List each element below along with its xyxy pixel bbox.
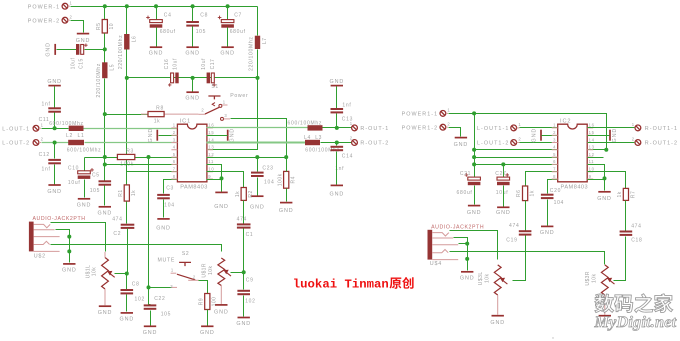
wire C7 to ground <box>227 28 229 47</box>
wire VCC to L6 <box>126 7 128 35</box>
svg-text:9: 9 <box>589 174 592 179</box>
svg-text:105: 105 <box>161 312 171 318</box>
svg-text:1k: 1k <box>131 190 137 196</box>
svg-text:GND: GND <box>467 210 482 216</box>
wire jack2 row2 down <box>454 238 468 266</box>
resistor R9 100 <box>198 294 217 310</box>
svg-text:102: 102 <box>245 299 255 305</box>
svg-text:luokai Tinman: luokai Tinman <box>293 278 389 292</box>
svg-text:C13: C13 <box>342 117 353 123</box>
potentiometer U$3R 10k <box>585 265 614 295</box>
svg-text:1: 1 <box>41 122 44 127</box>
input pin L-OUT1-2 <box>477 137 521 147</box>
wire pin6 line <box>475 164 558 166</box>
capacitor C21 680uf <box>457 171 481 196</box>
ground left of C15 <box>46 42 56 57</box>
svg-text:S1: S1 <box>211 84 219 90</box>
wire VCC right down to L7 <box>257 7 259 36</box>
wire pin11 to pin9 node <box>207 165 222 179</box>
wire pin14 to R-OUT1-2 <box>588 142 635 144</box>
svg-text:C22: C22 <box>154 296 165 302</box>
ground below jack2 <box>460 272 475 282</box>
node jack2 gnd 1 <box>465 242 469 246</box>
capacitor C16 10uf <box>171 73 179 84</box>
resistor R6 1k <box>516 186 535 201</box>
node C14/R-OUT-2 <box>335 141 339 145</box>
wire mid rail <box>127 77 258 79</box>
svg-text:C8: C8 <box>200 13 208 19</box>
svg-text:10k: 10k <box>92 267 98 276</box>
capacitor C18 474 <box>620 231 633 236</box>
svg-text:PAM8403: PAM8403 <box>180 184 208 190</box>
ground below C8 <box>185 47 200 56</box>
capacitor C1 474 <box>237 223 251 228</box>
svg-text:12: 12 <box>589 152 595 157</box>
svg-text:11: 11 <box>589 159 595 164</box>
svg-text:1: 1 <box>632 122 635 127</box>
svg-text:GND: GND <box>62 268 77 274</box>
inductor L1 labels <box>49 121 84 139</box>
svg-text:C10: C10 <box>68 165 79 171</box>
wire C11 to L-OUT-1 node <box>54 113 56 129</box>
svg-text:8: 8 <box>553 174 556 179</box>
svg-text:C27: C27 <box>495 171 506 177</box>
wire mid rail to ground <box>192 78 194 92</box>
wire pin15 to ground <box>207 135 228 137</box>
output pin R-OUT-1 <box>350 121 390 132</box>
svg-text:220/100Mhz: 220/100Mhz <box>249 36 255 71</box>
svg-text:GND: GND <box>143 330 158 336</box>
node VCC1 at pin13 <box>604 148 608 152</box>
svg-text:R9: R9 <box>198 298 204 305</box>
svg-text:U$1L: U$1L <box>85 265 91 279</box>
ground below C9 <box>236 318 251 328</box>
ground below U$3L <box>490 316 505 326</box>
capacitor C20 104 <box>541 188 564 206</box>
svg-text:10k: 10k <box>208 266 214 275</box>
svg-text:5: 5 <box>553 152 556 157</box>
ground below C5 <box>98 207 113 217</box>
wire wiper R to node <box>231 272 244 274</box>
node R3 right <box>147 155 151 159</box>
node mid rail right <box>256 76 260 80</box>
svg-text:2: 2 <box>632 137 635 142</box>
ground at IC2 pin15 <box>610 128 618 143</box>
svg-text:GND: GND <box>279 208 294 214</box>
svg-text:C1: C1 <box>246 232 254 238</box>
node C13/R-OUT-1 <box>335 126 339 130</box>
node wiper L / C8 <box>125 272 129 276</box>
wire ground to C13 <box>336 87 338 109</box>
stray mark <box>552 337 553 338</box>
potentiometer U$1R 10k <box>202 258 231 286</box>
svg-text:2: 2 <box>350 136 353 141</box>
svg-text:GND: GND <box>149 51 164 57</box>
svg-text:Power: Power <box>230 93 248 99</box>
pot U$1L top lead <box>104 252 106 258</box>
ground below C22 <box>143 326 158 336</box>
ground below C12 <box>47 185 62 195</box>
ground above C13 <box>330 79 345 85</box>
node VCC junction at L6 <box>125 4 129 8</box>
node R4 top <box>284 155 288 159</box>
wire jack row2 down <box>56 230 70 259</box>
svg-text:10uf: 10uf <box>173 58 179 70</box>
watermark logo <box>595 294 673 313</box>
svg-text:C18: C18 <box>631 238 642 244</box>
svg-text:680uf: 680uf <box>230 29 246 35</box>
svg-text:C12: C12 <box>39 152 50 158</box>
wire VCC to C8 <box>192 7 194 22</box>
svg-text:105: 105 <box>196 29 206 35</box>
ground at IC1 pin2 <box>148 128 158 143</box>
svg-text:680uf: 680uf <box>457 190 473 196</box>
svg-text:5: 5 <box>173 152 176 157</box>
svg-text:1k: 1k <box>235 191 241 197</box>
wire C5 stem <box>104 165 106 181</box>
svg-text:474: 474 <box>237 217 247 223</box>
ground at IC2 pin2 <box>532 128 542 143</box>
ground below C8 <box>120 313 135 323</box>
node IC2 pin9 ground <box>603 176 607 180</box>
node R5/C15/L5 <box>103 47 107 51</box>
svg-text:GND: GND <box>454 142 469 148</box>
wire pin11 to pin9 node <box>588 165 605 179</box>
wire S1 pin3 to SD net <box>231 119 287 158</box>
wire L1 to IC1 pin1 <box>84 128 178 130</box>
wire L6 down the page <box>126 50 128 185</box>
capacitor C2 474 <box>121 224 135 229</box>
svg-text:GND: GND <box>46 42 52 57</box>
svg-text:C5: C5 <box>92 172 100 178</box>
capacitor C19 474 <box>519 230 532 235</box>
node VCC junction at C8 <box>191 4 195 8</box>
svg-text:474: 474 <box>631 223 641 229</box>
svg-text:220/100Mhz: 220/100Mhz <box>96 63 102 98</box>
inductor L4 labels <box>304 135 340 153</box>
svg-text:C21: C21 <box>460 171 471 177</box>
wire C21 to ground <box>474 186 476 205</box>
svg-text:10: 10 <box>109 23 115 30</box>
svg-text:U$4: U$4 <box>430 261 442 267</box>
wire VCC to R5 <box>104 7 106 20</box>
svg-text:10: 10 <box>208 167 214 172</box>
wire R4 lead top <box>286 158 288 172</box>
svg-text:1: 1 <box>70 0 73 5</box>
svg-text:10uf: 10uf <box>68 180 81 186</box>
capacitor C19 labels <box>506 223 519 244</box>
wire C8 to ground <box>126 295 128 312</box>
capacitor C14 1nf <box>331 146 354 172</box>
svg-text:680uf: 680uf <box>160 29 176 35</box>
node C12/L-OUT-2 <box>53 141 57 145</box>
svg-text:2: 2 <box>201 108 204 113</box>
svg-text:POWER-1: POWER-1 <box>28 4 61 10</box>
svg-text:1nf: 1nf <box>42 167 51 173</box>
svg-text:MyDigit.net: MyDigit.net <box>594 313 677 331</box>
inductor L4 600/100Mhz <box>305 140 320 145</box>
wire VCC to C7 <box>227 7 229 20</box>
resistor R1 1k <box>118 185 137 201</box>
wire C23 stem <box>257 158 259 172</box>
ground below C4 <box>149 47 164 56</box>
input pin L-OUT1-1 <box>477 122 521 132</box>
node wiper R / C9 <box>242 270 246 274</box>
svg-text:U$3R: U$3R <box>585 271 591 286</box>
svg-text:6: 6 <box>173 159 176 164</box>
resistor R7 1k <box>617 188 636 200</box>
svg-text:220/100Mhz: 220/100Mhz <box>118 35 124 70</box>
wire pin5 line <box>85 157 178 159</box>
svg-text:10uf: 10uf <box>71 58 77 70</box>
svg-text:L6: L6 <box>131 36 137 43</box>
svg-text:C16: C16 <box>164 59 170 70</box>
svg-text:C23: C23 <box>262 165 273 171</box>
inductor L3 600/100Mhz <box>308 125 323 130</box>
wire ground to C11 <box>54 87 56 108</box>
svg-text:3: 3 <box>553 137 556 142</box>
svg-text:GND: GND <box>77 202 92 208</box>
svg-text:GND: GND <box>496 210 511 216</box>
svg-text:3: 3 <box>224 113 227 118</box>
op-amp IC1 PAM8403 <box>171 119 214 191</box>
svg-text:PAM8403: PAM8403 <box>561 184 589 190</box>
wire pin16 to L3 <box>207 127 308 129</box>
ground below C20 <box>540 226 555 236</box>
wire C14 to ground <box>336 152 338 185</box>
wire jack2 ring to pot R <box>450 252 605 265</box>
svg-text:L-OUT-1: L-OUT-1 <box>2 127 30 133</box>
wire R3 node down to mute <box>148 158 150 288</box>
wire R5 to C15 node <box>104 34 106 63</box>
svg-text:GND: GND <box>148 128 154 143</box>
wire C12 to ground <box>54 165 56 185</box>
ground above C11 <box>47 79 62 85</box>
svg-text:1nf: 1nf <box>342 102 351 108</box>
svg-text:R-OUT-2: R-OUT-2 <box>360 141 389 147</box>
svg-text:4: 4 <box>553 145 556 150</box>
capacitor C4 680uf <box>146 13 176 35</box>
svg-text:GND: GND <box>612 128 618 143</box>
ground below R4 <box>279 203 294 214</box>
svg-text:GND: GND <box>532 128 538 143</box>
svg-text:1: 1 <box>518 122 521 127</box>
capacitor C8b 102 <box>121 281 145 302</box>
wire pin5 line <box>475 157 558 159</box>
node jack ground 2 <box>67 249 71 253</box>
svg-text:C8: C8 <box>132 281 140 287</box>
svg-text:U$2: U$2 <box>34 253 46 259</box>
svg-text:2: 2 <box>553 130 556 135</box>
capacitor C17 labels <box>201 58 216 87</box>
capacitor C9 102 <box>237 278 255 305</box>
capacitor C13 1nf <box>331 102 354 122</box>
svg-text:C2: C2 <box>113 231 121 237</box>
wire C15 to node <box>85 49 105 51</box>
svg-text:GND: GND <box>98 310 113 316</box>
ground below jack <box>62 264 77 274</box>
svg-text:6: 6 <box>553 159 556 164</box>
wire pin10 to R2 <box>207 172 244 188</box>
output pin R-OUT-2 <box>350 136 390 147</box>
inductor L5 220/100Mhz <box>96 62 116 97</box>
node L6 / mid rail <box>125 76 129 80</box>
wire VCC1 riser down <box>474 114 476 178</box>
wire pin9 node to ground <box>604 179 606 191</box>
svg-text:2: 2 <box>518 137 521 142</box>
ground below U$1R <box>214 305 229 316</box>
wire VCC top rail <box>71 6 258 8</box>
node mute line <box>147 285 151 289</box>
svg-text:9: 9 <box>208 174 211 179</box>
ground below U$3R <box>598 316 613 326</box>
svg-text:R2: R2 <box>248 190 254 197</box>
svg-text:L5: L5 <box>109 64 115 71</box>
output pin L-OUT-1 <box>2 122 43 132</box>
svg-text:1k: 1k <box>530 190 536 196</box>
output pin L-OUT-2 <box>2 137 43 147</box>
wire C2 to wiper node <box>127 229 129 274</box>
node C27 tap <box>501 162 505 166</box>
inductor L2 600/100Mhz <box>68 140 84 145</box>
wire jack tip to pot L <box>51 223 106 252</box>
switch S1 Power <box>198 84 248 121</box>
resistor R2 1k <box>235 188 254 201</box>
ground at IC1 pin15 <box>228 128 236 143</box>
inductor L7 220/100Mhz <box>249 36 269 71</box>
svg-text:16: 16 <box>589 123 595 128</box>
svg-text:U$3L: U$3L <box>478 271 484 285</box>
capacitor C17 10uf <box>207 73 215 84</box>
ground below C7 <box>220 47 235 56</box>
svg-text:GND: GND <box>490 320 505 326</box>
svg-text:100k: 100k <box>277 173 283 186</box>
capacitor C18 labels <box>631 223 642 243</box>
wire pin8 to C3 <box>164 180 178 194</box>
wire C10 to ground <box>84 180 86 198</box>
svg-text:1: 1 <box>223 99 226 104</box>
pot U$1L bottom lead <box>104 289 106 305</box>
wire POWER-2 to ground <box>71 21 84 33</box>
ground below C21 <box>467 206 482 217</box>
node SD divider top <box>103 112 107 116</box>
resistor R5 <box>96 20 115 34</box>
svg-text:GND: GND <box>597 196 612 202</box>
capacitor C1 labels <box>237 217 254 238</box>
svg-text:104: 104 <box>164 202 174 208</box>
svg-text:R6: R6 <box>516 190 522 197</box>
svg-text:10: 10 <box>589 167 595 172</box>
capacitor C7 680uf <box>218 13 246 35</box>
node VCC junction at C7 <box>226 4 230 8</box>
wire L4 to R-OUT-2 <box>321 142 352 144</box>
svg-text:GND: GND <box>214 310 229 316</box>
svg-text:GND: GND <box>47 79 62 85</box>
wire L7 down to pin13 <box>207 50 258 150</box>
svg-text:3: 3 <box>173 137 176 142</box>
svg-text:GND: GND <box>460 276 475 282</box>
wire C13 to node <box>336 114 338 128</box>
svg-text:C4: C4 <box>164 13 172 19</box>
wire L-OUT1-1 to pin1 <box>520 127 558 129</box>
svg-text:GND: GND <box>47 189 62 195</box>
output pin R-OUT1-1 <box>632 122 678 132</box>
wire C1 to wiper node <box>243 229 245 273</box>
wire pin12 SD line <box>207 157 287 159</box>
svg-text:600/100Mhz: 600/100Mhz <box>288 121 323 127</box>
supply pin POWER1-1 <box>402 108 451 118</box>
ground below U$1L <box>98 306 113 316</box>
wire jack2 row3 <box>459 243 468 245</box>
wire C4 to ground <box>156 28 158 47</box>
potentiometer U$1L 10k <box>85 258 114 290</box>
wire C8 stem <box>126 274 128 290</box>
wire pin10 to R7 <box>588 172 626 189</box>
wire jack ring to pot R <box>51 245 222 252</box>
svg-text:GND: GND <box>200 330 215 336</box>
svg-text:MUTE: MUTE <box>158 257 176 263</box>
svg-text:10uf: 10uf <box>496 190 509 196</box>
wire pin4 line <box>475 149 558 151</box>
svg-text:GND: GND <box>214 204 229 210</box>
capacitor C15 10uf <box>76 44 84 55</box>
svg-text:R3: R3 <box>126 148 134 154</box>
svg-text:14: 14 <box>589 137 595 142</box>
svg-text:600/100Mhz: 600/100Mhz <box>67 148 102 154</box>
svg-text:L-OUT1-2: L-OUT1-2 <box>477 141 509 147</box>
svg-text:GND: GND <box>185 95 200 101</box>
svg-text:7: 7 <box>173 167 176 172</box>
wire pin14 to L4 <box>207 142 306 144</box>
wire pin12 stub <box>588 157 604 159</box>
svg-text:GND: GND <box>330 191 345 197</box>
ground below IC2 pin9 <box>597 192 612 202</box>
svg-text:474: 474 <box>112 216 122 222</box>
op-amp IC2 PAM8403 <box>552 119 595 191</box>
svg-text:L2: L2 <box>66 133 73 139</box>
svg-text:AUDIO-JACK2PTH: AUDIO-JACK2PTH <box>431 224 484 230</box>
svg-text:7: 7 <box>553 167 556 172</box>
wire C10 riser <box>84 158 86 171</box>
svg-text:GND: GND <box>120 317 135 323</box>
svg-text:10k: 10k <box>591 274 597 283</box>
svg-text:R-OUT1-2: R-OUT1-2 <box>645 141 678 147</box>
svg-text:C14: C14 <box>342 153 353 159</box>
wire pin9 <box>588 179 605 181</box>
svg-text:1k: 1k <box>154 119 161 125</box>
node VCC1 at C21 riser <box>472 111 476 115</box>
svg-text:2: 2 <box>447 121 450 126</box>
svg-text:L1: L1 <box>78 133 85 139</box>
svg-text:104: 104 <box>264 180 274 186</box>
capacitor C12 1nf <box>39 152 61 173</box>
svg-text:GND: GND <box>98 210 113 216</box>
wire C5 to ground <box>104 186 106 206</box>
svg-text:1: 1 <box>553 123 556 128</box>
svg-text:C17: C17 <box>210 59 216 70</box>
capacitor C22 105 <box>144 296 171 317</box>
svg-text:L4: L4 <box>304 135 311 141</box>
svg-text:GND: GND <box>236 321 251 327</box>
wire R1 to C2 <box>126 202 128 224</box>
capacitor C5 105 <box>90 172 111 194</box>
svg-text:POWER-2: POWER-2 <box>28 18 61 24</box>
inductor L1 600/100Mhz <box>69 126 84 131</box>
capacitor C8 105 <box>186 13 208 35</box>
wire C3 to ground <box>163 200 165 218</box>
ground below C27 <box>496 207 511 216</box>
node C11/L-OUT-1 <box>53 126 57 130</box>
